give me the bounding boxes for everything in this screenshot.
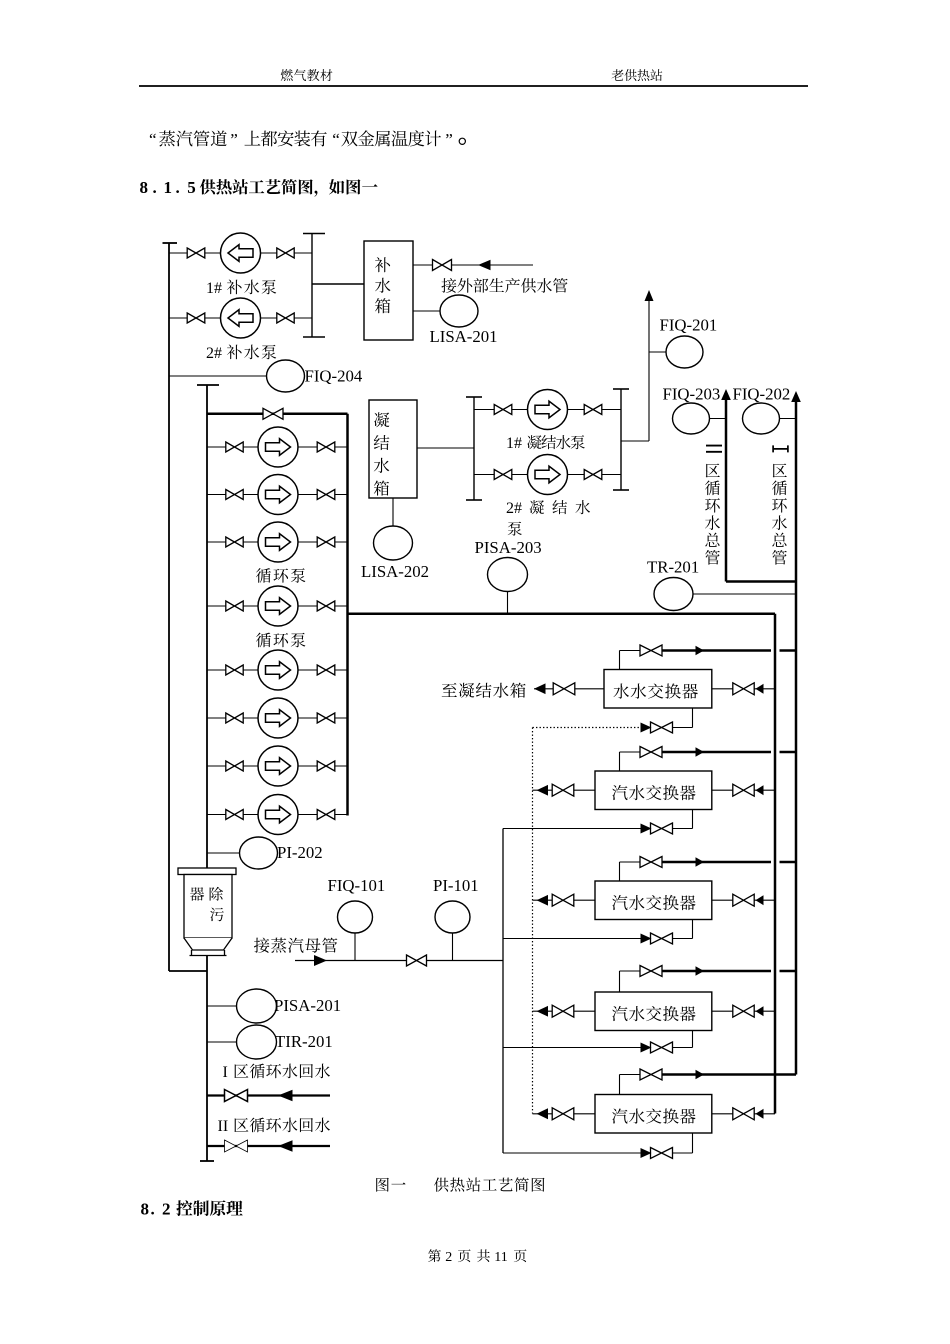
arrow HX1 right (756, 684, 764, 694)
wire cond discharge manifold (620, 389, 622, 490)
footer 第 (428, 1249, 441, 1262)
arrow HX4 left (537, 1006, 549, 1017)
header rule (139, 85, 808, 87)
wire circ pump row 8 (207, 814, 348, 816)
wire cond discharge cap top (613, 388, 629, 390)
valve HX4 bottom (651, 1042, 673, 1053)
wire PI-101 stub (452, 933, 454, 961)
wire circ suction manifold cap (197, 384, 219, 386)
svg-text:.: . (176, 178, 180, 197)
wire cond pump row 1 (474, 409, 621, 411)
svg-text:FIQ-202: FIQ-202 (733, 385, 791, 404)
label 汽水交换器 4 (612, 1006, 696, 1021)
header text right (612, 69, 663, 81)
label 区循环水回水 I (234, 1064, 330, 1079)
valve HX2 left (552, 784, 574, 796)
svg-text:1#: 1# (506, 435, 522, 452)
wire cond suction cap bot (466, 499, 482, 501)
wire makeup manifold (311, 234, 313, 338)
svg-text:“: “ (332, 130, 340, 149)
wire circ pump row 3 (207, 541, 348, 543)
label 除污器 污 (210, 908, 224, 922)
wire HX1 top branch thick (662, 649, 771, 652)
svg-text:1#: 1# (206, 280, 222, 297)
arrow HX1 top branch (696, 646, 705, 656)
wire zone II return (207, 1145, 330, 1147)
heading2 控制原理 (176, 1200, 242, 1216)
valve circ pump 6 inlet (226, 713, 243, 723)
wire zone II riser elbow (726, 580, 796, 583)
wire return main (348, 613, 776, 616)
instrument FIQ-204 (267, 360, 305, 392)
valve zone II return (225, 1140, 248, 1152)
wire PI-202 (207, 852, 240, 854)
wire HX1 bottom branch dotted (533, 727, 641, 729)
wire HX1 top stub h (620, 650, 641, 652)
wire left header pipe (168, 243, 170, 971)
svg-text:”: ” (445, 130, 453, 149)
wire HX3 bottom stub (692, 920, 694, 939)
wire HX4 right branch (712, 1010, 775, 1012)
tank 凝结水箱 (369, 400, 417, 498)
pump circulation 1 (258, 427, 298, 467)
svg-text:II: II (218, 1118, 229, 1135)
wire tank to cond pumps (417, 447, 474, 449)
wire HX2 top branch jump (780, 751, 797, 754)
heading1 如图一 (329, 179, 378, 194)
wire FIQ-101 stub (354, 933, 356, 961)
valve steam header (407, 955, 427, 966)
arrow HX2 left (537, 785, 549, 796)
svg-text:PI-202: PI-202 (277, 843, 323, 862)
pump 1# makeup (221, 233, 261, 273)
instrument LISA-201 (440, 295, 478, 327)
svg-text:FIQ-203: FIQ-203 (663, 385, 721, 404)
valve circ pump 1 outlet (317, 442, 335, 452)
wire cond riser (648, 300, 650, 441)
svg-text:FIQ-101: FIQ-101 (328, 876, 386, 895)
wire steam header (295, 960, 503, 962)
instrument PI-202 (240, 837, 278, 869)
valve makeup pump1 inlet (187, 248, 205, 258)
valve HX5 top (640, 1069, 662, 1080)
wire cond suction manifold (473, 397, 475, 500)
arrow HX5 bottom (641, 1148, 652, 1158)
valve HX3 bottom (651, 933, 673, 944)
heading1 comma (314, 191, 317, 197)
arrow HX4 top branch (696, 966, 705, 976)
wire circ pump row 2 (207, 494, 348, 496)
wire left pipe to vessel (169, 970, 207, 972)
wire FIQ-203 stub (710, 418, 727, 420)
valve circ pump 2 outlet (317, 490, 335, 500)
valve cond pump 1 inlet (494, 405, 512, 415)
svg-text:11: 11 (494, 1250, 507, 1265)
svg-text:TR-201: TR-201 (647, 558, 699, 577)
para full stop (459, 138, 465, 144)
valve makeup pump2 inlet (187, 313, 205, 323)
valve cond pump 2 inlet (494, 470, 512, 480)
svg-text:2: 2 (445, 1250, 452, 1265)
arrow HX1 left (534, 683, 546, 694)
svg-text:PI-101: PI-101 (433, 876, 479, 895)
label 补水泵 2 (227, 345, 276, 360)
arrow HX5 left (537, 1108, 549, 1119)
pump condensate 2# (528, 455, 568, 495)
wire HX3 top branch jump (780, 861, 797, 864)
valve HX2 top (640, 747, 662, 758)
wire circ pump row 7 (207, 765, 348, 767)
pump 2# makeup (221, 298, 261, 338)
valve circ pump 5 inlet (226, 665, 243, 675)
label 至凝结水箱 (442, 683, 526, 698)
label 补水箱 (375, 257, 391, 313)
svg-text:2#: 2# (506, 500, 522, 517)
valve circ pump 7 outlet (317, 761, 335, 771)
heat exchanger HX2 汽水交换器 (595, 771, 712, 810)
label 汽水交换器 3 (612, 895, 696, 910)
valve HX4 left (552, 1005, 574, 1017)
instrument LISA-202 (374, 526, 413, 560)
valve HX5 left (552, 1108, 574, 1120)
svg-text:FIQ-204: FIQ-204 (305, 367, 363, 386)
svg-text:8: 8 (140, 178, 149, 197)
instrument PI-101 (435, 901, 470, 933)
wire HX1 top stub (619, 651, 621, 670)
wire HX4 top stub h (620, 970, 641, 972)
pump circulation 3 (258, 522, 298, 562)
valve HX4 top (640, 966, 662, 977)
label numeral II rotated (706, 446, 722, 452)
wire HX1 bottom branch (641, 727, 693, 729)
heat exchanger HX4 汽水交换器 (595, 992, 712, 1031)
svg-text:I: I (223, 1064, 228, 1081)
label 补水泵 1 (227, 280, 276, 295)
wire HX1 left branch (534, 688, 604, 690)
arrow zone II riser top (721, 389, 731, 400)
wire HX3 top branch thick (662, 861, 771, 864)
valve HX3 left (552, 894, 574, 906)
valve HX3 right (733, 894, 754, 906)
label 水水交换器 1 (613, 683, 697, 698)
svg-text:PISA-203: PISA-203 (475, 538, 542, 557)
wire HX5 top stub h (620, 1074, 641, 1076)
wire circ suction manifold (206, 385, 208, 868)
wire cond suction cap top (466, 396, 482, 398)
wire PISA-201 (207, 1005, 238, 1007)
arrow zone II return (278, 1140, 293, 1151)
wire HX2 left branch (533, 789, 596, 791)
wire HX4 top branch thick (662, 970, 771, 973)
svg-text:.: . (151, 1200, 155, 1219)
wire supply manifold V1 (774, 614, 777, 1114)
valve circ pump 8 outlet (317, 810, 335, 820)
valve HX1 top (640, 645, 662, 656)
arrow steam header (314, 955, 327, 966)
arrow cond riser top (645, 290, 654, 301)
wire HX2 bottom branch (503, 828, 693, 830)
heat exchanger HX3 汽水交换器 (595, 881, 712, 920)
instrument FIQ-202 (743, 403, 780, 434)
valve circ pump 7 inlet (226, 761, 243, 771)
label 循环泵 lower (256, 633, 305, 648)
wire HX1 bottom stub (692, 708, 694, 728)
valve HX1 right (733, 683, 754, 695)
label 区循环水总管 II (705, 463, 720, 564)
wire makeup pump2 row (169, 317, 312, 319)
arrow zone I riser top (791, 391, 801, 402)
wire HX4 top branch jump (780, 970, 797, 973)
label 循环泵 upper (256, 568, 305, 583)
heat exchanger HX1 水水交换器 (604, 670, 712, 709)
para 上都安装有 (245, 130, 327, 146)
pump circulation 6 (258, 698, 298, 738)
header text left (281, 69, 333, 81)
svg-text:TIR-201: TIR-201 (275, 1032, 333, 1051)
wire zone I return (207, 1094, 330, 1096)
wire HX5 bottom branch (503, 1152, 693, 1154)
arrow HX2 top branch (696, 747, 705, 757)
wire makeup manifold bottom cap (303, 336, 325, 338)
wire circ pump row 1 (207, 446, 348, 448)
wire HX4 bottom branch (503, 1047, 693, 1049)
pump circulation 7 (258, 746, 298, 786)
wire HX4 left branch (533, 1010, 596, 1012)
instrument PISA-201 (237, 989, 277, 1023)
valve cond pump 2 outlet (584, 470, 602, 480)
arrow HX5 right (756, 1109, 764, 1119)
para 蒸汽管道 (159, 130, 227, 146)
wire FIQ-204 (169, 375, 267, 377)
wire cond pump row 2 (474, 474, 621, 476)
valve HX1 bottom (651, 722, 673, 733)
arrow HX4 bottom (641, 1043, 652, 1053)
wire HX2 bottom stub (692, 810, 694, 829)
label numeral I rotated (773, 445, 789, 452)
wire vessel outlet cap (200, 1160, 214, 1162)
wire HX5 top stub (619, 1075, 621, 1095)
svg-text:2: 2 (162, 1200, 171, 1219)
wire HX2 top branch thick (662, 751, 771, 754)
valve circ pump 1 inlet (226, 442, 243, 452)
label 凝 结 水 (530, 500, 590, 514)
wire HX2 right branch (712, 789, 775, 791)
valve circ pump 4 inlet (226, 601, 243, 611)
pump circulation 2 (258, 475, 298, 515)
valve HX1 left (553, 683, 575, 695)
label 汽水交换器 2 (612, 785, 696, 800)
pump circulation 4 (258, 586, 298, 626)
valve circ pump 2 inlet (226, 490, 243, 500)
caption 图一 (376, 1178, 405, 1192)
valve makeup pump2 outlet (277, 313, 294, 323)
pump circulation 8 (258, 795, 298, 835)
arrow external supply (478, 260, 491, 270)
valve external supply (433, 260, 452, 271)
arrow HX3 right (756, 895, 764, 905)
svg-text:1: 1 (164, 178, 173, 197)
wire left pipe top cap (163, 242, 178, 244)
valve HX5 bottom (651, 1148, 673, 1159)
label 凝结水箱 (374, 412, 390, 495)
para 双金属温度计 (341, 130, 441, 146)
wire circ pump row 6 (207, 717, 348, 719)
wire HX2 top stub (619, 752, 621, 771)
wire HX3 left branch (533, 899, 596, 901)
footer 共 (477, 1249, 490, 1262)
wire cond discharge out (621, 440, 649, 442)
wire FIQ-202 stub (780, 418, 797, 420)
arrow HX1 bottom (641, 723, 652, 733)
arrow HX4 right (756, 1006, 764, 1016)
wire TIR-201 (207, 1041, 238, 1043)
wire zone I riser (795, 399, 798, 1075)
svg-text:.: . (153, 178, 157, 197)
instrument FIQ-201 (666, 336, 703, 368)
valve circ pump 5 outlet (317, 665, 335, 675)
arrow HX3 bottom (641, 934, 652, 944)
valve HX2 bottom (651, 823, 673, 834)
valve circ bypass (263, 408, 283, 419)
instrument FIQ-101 (338, 901, 373, 933)
instrument FIQ-203 (673, 403, 710, 434)
wire TR-201 stub (693, 593, 796, 595)
svg-text:LISA-202: LISA-202 (361, 562, 429, 581)
label 凝结水泵 1 (527, 435, 585, 449)
wire circ bypass (207, 413, 348, 416)
wire circ pump row 5 (207, 669, 348, 671)
svg-text:PISA-201: PISA-201 (274, 996, 341, 1015)
valve circ pump 4 outlet (317, 601, 335, 611)
footer 页 a (458, 1249, 471, 1262)
arrow HX3 left (537, 895, 549, 906)
wire steam manifold (502, 829, 504, 1154)
valve circ pump 3 inlet (226, 537, 243, 547)
wire condensate dotted riser (532, 728, 534, 1114)
heat exchanger HX5 汽水交换器 (595, 1095, 712, 1134)
wire HX3 bottom branch (503, 938, 693, 940)
valve HX3 top (640, 857, 662, 868)
tank 补水箱 (364, 241, 413, 340)
footer 页 b (514, 1249, 527, 1262)
label 区循环水回水 II (234, 1118, 330, 1133)
wire HX3 top stub (619, 862, 621, 881)
label 接外部生产供水管 (441, 278, 567, 293)
label 除污器 器除 (190, 887, 223, 901)
wire HX2 top stub h (620, 751, 641, 753)
svg-text:8: 8 (141, 1200, 150, 1219)
svg-text:2#: 2# (206, 345, 222, 362)
svg-text:LISA-201: LISA-201 (430, 327, 498, 346)
label 区循环水总管 I (772, 463, 787, 564)
arrow HX3 top branch (696, 857, 705, 867)
valve HX4 right (733, 1005, 754, 1017)
wire external supply (413, 264, 533, 266)
wire HX1 top branch jump (780, 649, 797, 652)
wire HX5 top branch thick (662, 1073, 796, 1076)
wire vessel outlet (206, 956, 208, 1162)
caption 供热站工艺简图 (434, 1177, 545, 1191)
valve circ pump 3 outlet (317, 537, 335, 547)
wire cond discharge cap bot (613, 489, 629, 491)
wire HX4 top stub (619, 971, 621, 992)
arrow HX5 top branch (696, 1070, 705, 1080)
valve circ pump 6 outlet (317, 713, 335, 723)
instrument TR-201 (654, 578, 693, 611)
wire HX3 top stub h (620, 861, 641, 863)
wire makeup pump1 row (169, 252, 312, 254)
wire manifold to tank (312, 283, 364, 285)
label 汽水交换器 5 (612, 1108, 696, 1123)
valve HX5 right (733, 1108, 754, 1120)
valve zone I return (225, 1090, 248, 1102)
wire LISA-201 (413, 310, 441, 312)
wire circ discharge manifold (346, 414, 349, 816)
arrow HX2 right (756, 785, 764, 795)
valve HX2 right (733, 784, 754, 796)
wire zone II riser (725, 397, 728, 582)
wire HX4 bottom stub (692, 1031, 694, 1048)
wire HX5 left branch (533, 1113, 596, 1115)
instrument TIR-201 (237, 1025, 277, 1059)
svg-text:5: 5 (187, 178, 196, 197)
wire HX3 right branch (712, 899, 775, 901)
svg-text:“: “ (149, 130, 157, 149)
wire HX5 right branch (712, 1113, 775, 1115)
wire HX5 bottom stub (692, 1133, 694, 1153)
heading1 供热站工艺简图 (200, 179, 313, 195)
svg-text:FIQ-201: FIQ-201 (660, 316, 718, 335)
valve cond pump 1 outlet (584, 405, 602, 415)
label 接蒸汽母管 (254, 938, 337, 953)
wire PISA-203 stub (507, 592, 509, 614)
svg-text:”: ” (230, 130, 238, 149)
arrow HX2 bottom (641, 824, 652, 834)
instrument PISA-203 (488, 558, 528, 592)
wire FIQ-201 stub (649, 351, 667, 353)
pump condensate 1# (528, 390, 568, 430)
wire circ pump row 4 (207, 605, 348, 607)
vessel 除污器 (178, 868, 236, 956)
arrow zone I return (278, 1090, 293, 1101)
wire LISA-202 stub (392, 498, 394, 526)
valve circ pump 8 inlet (226, 810, 243, 820)
pump circulation 5 (258, 650, 298, 690)
wire HX1 right branch (712, 688, 775, 690)
valve makeup pump1 outlet (277, 248, 294, 258)
wire makeup manifold top cap (303, 233, 325, 235)
label 泵 2 (508, 522, 522, 536)
